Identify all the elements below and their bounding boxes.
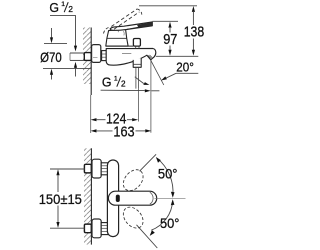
body top band lines — [106, 45, 133, 47]
G 1/2 bottom text — [102, 75, 126, 90]
wall hatching front view — [84, 148, 91, 244]
svg-text:1: 1 — [114, 75, 118, 82]
wall face line front view — [90, 148, 92, 244]
150+-15 dimension — [50, 168, 85, 170]
svg-text:1: 1 — [61, 1, 65, 8]
aerator detail — [148, 55, 152, 58]
dashed lever raised position — [119, 166, 147, 195]
svg-text:G: G — [102, 75, 112, 90]
G 1/2 top text — [49, 0, 73, 15]
svg-text:97: 97 — [163, 31, 177, 48]
wall extension line down to dims — [90, 95, 92, 133]
supply pipe lines — [70, 52, 85, 54]
housing inner arcs — [117, 29, 119, 33]
svg-text:50°: 50° — [160, 215, 179, 231]
svg-text:138: 138 — [184, 24, 205, 40]
lower up-leader — [75, 67, 77, 77]
124 dimension — [91, 118, 97, 121]
lower 50-deg ray — [137, 225, 158, 248]
wall face line top view — [90, 28, 92, 96]
svg-text:163: 163 — [113, 124, 134, 140]
124 extension line — [138, 89, 140, 122]
lever capsule front — [108, 191, 156, 205]
97 dimension — [153, 20, 179, 22]
diverter knob — [133, 39, 140, 47]
shower hose outlet port — [133, 58, 141, 67]
escutcheon (side) — [92, 45, 101, 63]
svg-text:50°: 50° — [158, 166, 178, 182]
svg-text:Ø70: Ø70 — [40, 50, 62, 65]
body front — [107, 160, 118, 237]
G 1/2 top leader — [50, 16, 76, 46]
upper 50-deg arc — [157, 158, 173, 196]
svg-text:2: 2 — [68, 5, 73, 14]
top union nut front — [101, 163, 108, 175]
outlet mid line — [134, 63, 141, 65]
G 1/2 bottom leader with arrow — [101, 89, 145, 91]
cartridge housing trapezoid — [106, 29, 128, 46]
svg-text:G: G — [49, 0, 59, 15]
wall hatching top view — [83, 28, 91, 85]
163 dimension — [91, 129, 97, 132]
spout 20-deg diagonal — [151, 60, 164, 85]
svg-text:150±15: 150±15 — [39, 191, 82, 207]
upper arc arrowhead bottom — [171, 192, 175, 198]
top fitting square — [84, 164, 91, 173]
union nut (side) — [102, 51, 107, 61]
bottom escutcheon front — [92, 219, 101, 238]
upper 50-deg ray — [140, 154, 157, 171]
centerline right of lever — [155, 197, 186, 199]
lower arc arrowhead top — [171, 199, 175, 205]
faucet body barrel + spout outline — [106, 49, 156, 66]
lever handle (solid) — [110, 22, 152, 30]
bottom reference line for 97/138 — [156, 55, 198, 57]
lower arc arrowhead bottom — [150, 230, 155, 236]
dashed raised lever lines — [111, 9, 137, 27]
lower 50-deg arc — [151, 201, 172, 230]
bottom fitting square — [84, 224, 91, 233]
svg-text:20°: 20° — [176, 59, 194, 74]
hose nipple lines below outlet — [135, 67, 137, 88]
top escutcheon front — [92, 159, 101, 178]
spout tip extension line — [150, 60, 152, 133]
upper arc arrowhead top — [156, 157, 161, 163]
diagonal leader to spout extension — [135, 77, 144, 84]
dashed lever lowered position — [119, 203, 147, 232]
concealed fitting square — [84, 53, 91, 61]
138 dimension — [139, 5, 197, 7]
svg-text:2: 2 — [121, 80, 126, 89]
body inner detail line — [122, 53, 131, 55]
bottom union nut front — [101, 223, 108, 235]
O70 dimension — [44, 42, 67, 44]
